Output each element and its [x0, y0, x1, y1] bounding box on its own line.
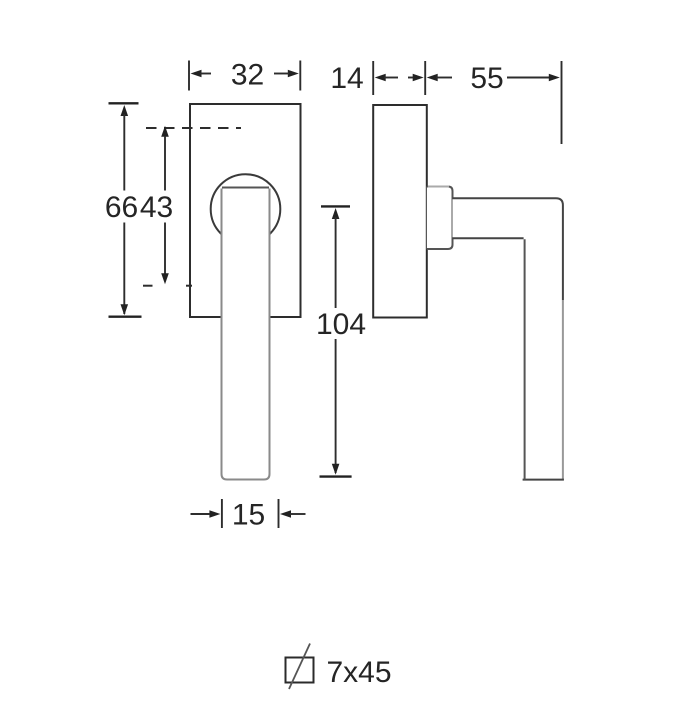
svg-text:14: 14 [330, 62, 363, 95]
svg-text:15: 15 [232, 499, 265, 532]
svg-text:104: 104 [316, 308, 366, 341]
svg-text:66: 66 [105, 191, 138, 224]
svg-text:7x45: 7x45 [327, 656, 392, 689]
svg-text:55: 55 [470, 62, 503, 95]
svg-text:32: 32 [231, 59, 264, 92]
svg-text:43: 43 [140, 191, 173, 224]
